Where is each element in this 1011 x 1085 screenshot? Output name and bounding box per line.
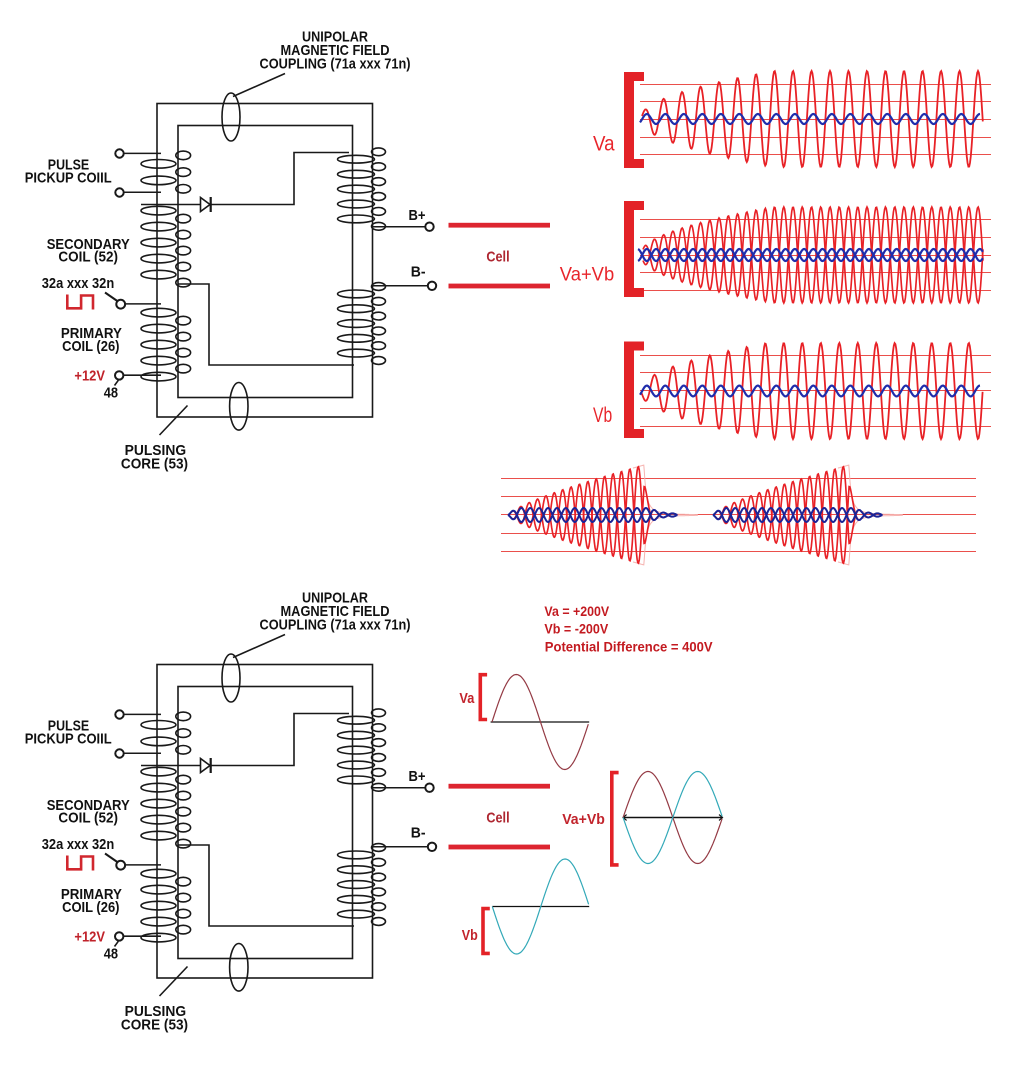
svg-text:COUPLING (71a xxx 71n): COUPLING (71a xxx 71n) xyxy=(260,55,411,72)
right secondary winding upper group xyxy=(338,148,386,230)
Va waveform plot gridlines xyxy=(640,85,991,155)
Va baseline xyxy=(491,721,590,723)
svg-text:32a xxx 32n: 32a xxx 32n xyxy=(42,275,115,292)
pickup coil terminal 2 xyxy=(115,188,161,196)
beat burst 1 red trace B xyxy=(509,467,662,561)
right secondary winding lower group xyxy=(338,283,386,365)
Vb red growing sine trace xyxy=(641,343,983,439)
Va+Vb red envelope trace B xyxy=(643,207,983,303)
Va+Vb bottom red bracket xyxy=(610,771,619,867)
svg-text:CORE (53): CORE (53) xyxy=(121,456,188,473)
cell electrode plate B+ xyxy=(449,223,551,228)
svg-text:Va+Vb: Va+Vb xyxy=(562,811,605,828)
wire from diode to upper right winding xyxy=(211,153,349,205)
secondary coil (52) windings xyxy=(141,206,191,287)
Va+Vb teal sine xyxy=(623,772,722,864)
Va+Vb waveform plot gridlines xyxy=(640,220,991,291)
Vb baseline xyxy=(492,906,589,908)
beat waveform plot gridlines xyxy=(501,479,976,552)
beat burst 1 blue chain B xyxy=(508,508,677,522)
Va+Vb axis arrowheads xyxy=(623,815,722,821)
leader line from COUPLING label to loop xyxy=(233,74,285,97)
B- output terminal xyxy=(373,282,437,290)
Va blue reference sine trace xyxy=(640,114,980,124)
Vb blue reference sine trace xyxy=(640,386,980,397)
pickup coil terminal 1 xyxy=(115,149,161,157)
Va+Vb axis line xyxy=(623,817,722,819)
svg-text:PICKUP COIIL: PICKUP COIIL xyxy=(25,170,112,187)
pulsing core inner window outline xyxy=(178,126,353,398)
svg-text:Va = +200V: Va = +200V xyxy=(544,603,609,619)
second schematic copy (lower) xyxy=(25,590,550,1034)
svg-text:Cell: Cell xyxy=(486,249,509,266)
Vb bottom red bracket xyxy=(481,907,490,955)
cell electrode plate B- xyxy=(449,284,551,289)
beat burst 2 red trace A xyxy=(714,469,867,563)
Va bottom red bracket xyxy=(479,673,488,721)
svg-text:Va: Va xyxy=(459,690,474,707)
+12V terminal 48 xyxy=(115,371,162,385)
svg-text:Vb = -200V: Vb = -200V xyxy=(544,621,608,637)
svg-text:COIL (26): COIL (26) xyxy=(62,338,119,355)
Vb single-cycle sine (teal) xyxy=(492,859,588,954)
svg-text:Va: Va xyxy=(593,133,615,156)
beat burst 1 envelope outline xyxy=(633,465,698,514)
terminal 32a xxx 32n with leader xyxy=(105,293,161,309)
beat burst 2 blue chain B xyxy=(713,508,882,522)
Va+Vb red envelope trace A xyxy=(643,207,983,303)
svg-text:B-: B- xyxy=(411,264,426,281)
Vb waveform red bracket xyxy=(624,342,644,439)
Va red growing sine trace xyxy=(642,71,983,167)
leader line from PULSING CORE label xyxy=(160,406,188,436)
svg-text:B+: B+ xyxy=(409,207,426,224)
beat burst 2 red trace B xyxy=(714,467,867,561)
svg-text:Vb: Vb xyxy=(593,404,612,427)
diode D xyxy=(141,197,211,212)
pulsing core loop at bottom xyxy=(230,383,248,431)
beat burst 1 blue chain A xyxy=(508,508,677,522)
beat burst 2 blue chain A xyxy=(713,508,882,522)
Va+Vb blue chain trace B xyxy=(638,249,983,261)
svg-text:Potential Difference = 400V: Potential Difference = 400V xyxy=(545,639,713,655)
svg-text:COIL (52): COIL (52) xyxy=(58,249,118,266)
Va+Vb waveform red bracket xyxy=(624,201,644,297)
unipolar magnetic field coupling loop (71a xxx 71n) xyxy=(222,93,240,141)
beat burst 2 envelope outline xyxy=(838,465,903,514)
pulse pickup coil windings xyxy=(141,151,191,193)
svg-text:Va+Vb: Va+Vb xyxy=(560,264,614,285)
input square pulse symbol xyxy=(67,295,93,310)
svg-text:48: 48 xyxy=(104,384,118,401)
wire from secondary coil bottom to lower right winding xyxy=(178,284,354,365)
B+ output terminal xyxy=(373,223,434,231)
Vb waveform plot gridlines xyxy=(640,356,991,427)
Va+Vb dark red sine xyxy=(623,772,722,864)
svg-text:+12V: +12V xyxy=(74,368,105,385)
Va waveform red bracket xyxy=(624,72,644,168)
beat burst 1 red trace A xyxy=(509,469,662,563)
pulsing core (53) outer outline xyxy=(157,104,373,418)
Va single-cycle sine (dark red) xyxy=(492,675,588,770)
Va+Vb blue chain trace A xyxy=(638,249,983,261)
primary coil (26) windings xyxy=(141,308,191,381)
svg-text:Vb: Vb xyxy=(462,927,478,944)
